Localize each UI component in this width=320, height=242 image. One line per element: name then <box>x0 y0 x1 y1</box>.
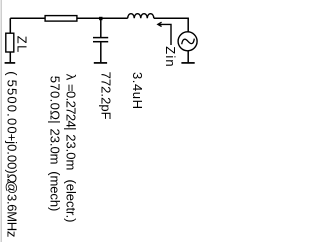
wire capacitor to ground <box>100 42 102 62</box>
node junction dot <box>99 17 102 20</box>
ground source <box>181 62 194 64</box>
capacitor C1 plate 1 <box>93 37 108 39</box>
inductor L1 coil <box>128 14 154 19</box>
svg-text:Ω@: Ω@ <box>4 174 19 195</box>
svg-text:Zin: Zin <box>163 46 178 66</box>
ground load <box>5 62 16 64</box>
svg-text:3.6MHz: 3.6MHz <box>4 194 19 237</box>
svg-text:(: ( <box>4 71 19 76</box>
svg-text:3.4uH: 3.4uH <box>130 72 145 109</box>
svg-text:23.0m: 23.0m <box>48 129 63 165</box>
svg-text:570.0Ω|: 570.0Ω| <box>48 76 63 124</box>
svg-text:+j0.00): +j0.00) <box>4 134 19 174</box>
svg-text:(electr.): (electr.) <box>63 180 78 223</box>
wire load to ground <box>9 52 11 62</box>
wire source to ground <box>187 51 189 62</box>
window border edge <box>1 0 2 242</box>
AC source V1 circle <box>178 32 197 51</box>
svg-text:23.0m: 23.0m <box>63 134 78 170</box>
load ZL box <box>6 33 14 52</box>
svg-text:5500.00: 5500.00 <box>4 80 19 134</box>
Zin arrowhead <box>158 22 162 26</box>
wire capacitor branch <box>100 18 102 38</box>
wire from source to top of rail <box>187 18 189 32</box>
svg-text:(mech): (mech) <box>48 171 63 211</box>
svg-text:=0.2724|: =0.2724| <box>63 84 78 131</box>
svg-text:λ: λ <box>63 74 78 81</box>
wire rail top segment <box>154 17 189 19</box>
wire rail middle segment <box>10 17 127 19</box>
wire rail to load corner <box>9 18 11 33</box>
capacitor C1 plate 2 <box>93 41 108 43</box>
transmission line TL1 box <box>45 16 77 22</box>
Zin arrow <box>158 24 171 45</box>
ground capacitor <box>94 62 107 64</box>
AC source sine symbol <box>182 39 195 45</box>
svg-text:772.2pF: 772.2pF <box>99 72 114 120</box>
svg-text:ZL: ZL <box>15 36 30 53</box>
